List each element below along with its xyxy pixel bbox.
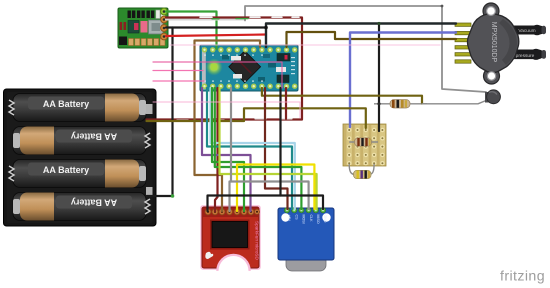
svg-text:AA Battery: AA Battery [43, 165, 89, 175]
wire black: pad1 / arduino / blue pin6 net [208, 196, 324, 212]
electret microphone [485, 90, 500, 104]
wire purple: arduino to red pad7 [202, 88, 251, 211]
AA battery 2 (flipped) [13, 127, 146, 155]
blue SD module [278, 208, 334, 271]
gray lead: resistor R1 to mic [422, 101, 486, 104]
junction dot black/sensor net [377, 22, 380, 25]
wire green A: arduino to red pad6 [212, 88, 244, 211]
logo [205, 252, 213, 259]
wire black bottom: battery to junction [147, 195, 173, 197]
pads [205, 209, 260, 215]
junction dot at battery minus [171, 194, 175, 198]
wire red: module to arduino [166, 35, 266, 37]
pins [284, 208, 325, 213]
junction dot gray wire corner [441, 5, 444, 8]
wire black: arduino to sensor pin1 [266, 24, 456, 48]
pins 1-6 [455, 23, 471, 26]
wire maroon M2b: arduino pin down to battery run [285, 88, 287, 119]
AA battery 4 (flipped) [13, 193, 146, 221]
pink ratsnest lines [153, 62, 282, 88]
top pin row [202, 47, 298, 52]
svg-text:CS: CS [294, 215, 298, 221]
svg-text:AA Battery: AA Battery [71, 198, 117, 208]
svg-text:Vacuum: Vacuum [518, 28, 535, 34]
AA battery 1 [13, 94, 146, 122]
pressure port [509, 49, 546, 60]
mounting tab bottom [484, 68, 500, 84]
svg-text:MPX5010DP: MPX5010DP [490, 22, 497, 63]
sd slot [210, 220, 250, 250]
svg-text:MOSI: MOSI [302, 215, 306, 224]
spring battery4 [145, 199, 150, 214]
bottom pin row [202, 84, 298, 89]
svg-text:CLK: CLK [309, 215, 313, 223]
AA battery 3 [13, 160, 146, 188]
sensor body [467, 14, 518, 73]
Arduino Pro Mini [200, 45, 298, 91]
wire maroon M3: arduino to red pad2 [215, 88, 218, 211]
wire brown loop: arduino pin to red module pad3 [195, 41, 261, 212]
wire green: module to arduino top [166, 12, 217, 50]
mounting holes [487, 7, 496, 16]
bottom cutout [216, 254, 251, 288]
tiny silkscreen marks [204, 55, 295, 82]
junction dot resistor/black [377, 102, 380, 105]
resistor R3 below perfboard [349, 164, 374, 179]
junction dot black module/arduino [264, 26, 268, 30]
battery holder 4xAA [4, 89, 157, 226]
wire maroon M4: arduino to blue pin1 [265, 88, 288, 209]
svg-text:AA Battery: AA Battery [71, 132, 117, 142]
MPX5010DP pressure sensor [455, 3, 546, 84]
svg-text:GND: GND [323, 215, 327, 223]
spring battery3 [9, 166, 14, 181]
chip U1 [229, 51, 261, 83]
battery holder terminal tabs [146, 104, 153, 114]
svg-text:SparkFun microSD: SparkFun microSD [255, 221, 260, 260]
sd card sticking out [286, 252, 326, 271]
wire gray: red pad4 to blue pin4 with arduino stub [230, 88, 232, 182]
resistor R2 on perfboard [349, 138, 378, 146]
wire teal: arduino to blue pin2 [207, 88, 292, 209]
wire lime: arduino down right to blue pin5 area [220, 88, 317, 209]
spring battery2 [145, 133, 150, 148]
mounting tab top [483, 3, 499, 19]
perfboard [343, 124, 386, 166]
green breakout module (top-left) [118, 8, 168, 48]
wire black: module to arduino junction [166, 26, 266, 28]
led glow [206, 59, 223, 76]
spring battery1 [9, 100, 14, 115]
wire black: vertical to perfboard col4 [378, 24, 380, 132]
misc components [277, 54, 290, 62]
wire yellow: red pad5 to blue pin5 [237, 165, 314, 212]
wire maroon: module - right side - battery plus [147, 18, 303, 120]
wire olive A: arduino to resistor R1 [262, 88, 422, 104]
red microSD module [182, 205, 272, 288]
svg-text:MISO: MISO [316, 215, 320, 224]
olive dashes over battery maroon run [177, 119, 224, 121]
wire gray: junction up over to mic [245, 6, 486, 92]
wire black: down to battery minus [171, 28, 173, 197]
wire lightblue: arduino to blue pin2 [211, 88, 295, 209]
svg-text:pressure: pressure [516, 53, 535, 59]
pin labels [287, 215, 327, 224]
wire brown: arduino to sensor pin3 [287, 32, 457, 47]
wire green B: arduino to blue pin3 [215, 88, 302, 209]
svg-text:+5V: +5V [287, 215, 291, 222]
vacuum port [512, 25, 546, 36]
right edge pads [161, 8, 168, 15]
wire olive: battery to perfboard col3 [147, 108, 366, 128]
wire periwinkle: sensor pin2 to perfboard col1 [350, 33, 456, 128]
svg-text:AA Battery: AA Battery [43, 99, 89, 109]
svg-text:fritzing: fritzing [500, 269, 545, 285]
resistor R1 (near sensor) [374, 100, 427, 108]
wire white: module to junction [166, 19, 245, 21]
